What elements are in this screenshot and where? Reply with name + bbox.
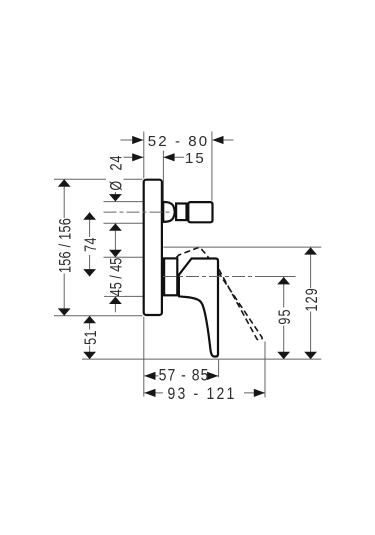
dimension line 15 — [116, 156, 143, 158]
arrow 93-121 left — [144, 389, 155, 397]
dimension line 51 — [89, 316, 91, 359]
extension line spout bottom (dia 24 bottom) — [104, 222, 143, 224]
spout centerline — [104, 211, 173, 213]
arrow 74 top — [83, 212, 96, 219]
svg-text:51: 51 — [81, 330, 100, 345]
spout collar ring — [176, 204, 186, 221]
arrow 45/45 bottom — [109, 297, 122, 304]
arrow 74 bottom — [83, 269, 96, 276]
arrow 15 left — [132, 153, 143, 161]
text halos — [58, 133, 319, 400]
svg-text:93 - 121: 93 - 121 — [167, 385, 236, 403]
extension line plate bottom — [54, 315, 143, 317]
arrow 156 bottom — [58, 308, 71, 315]
cartridge centerline — [163, 276, 268, 278]
extension line spout front (52-80) — [211, 132, 213, 201]
arrow 51 top — [83, 316, 96, 323]
extension line raised lever top (129) — [164, 246, 322, 248]
extension line wall top (52-80, 15) — [143, 132, 145, 179]
arrow 51 bottom — [83, 352, 96, 359]
dimension line 57-85 — [144, 375, 218, 377]
arrow 156 top — [58, 179, 71, 186]
svg-text:57 - 85: 57 - 85 — [159, 367, 210, 385]
dimension line 156/156 — [63, 179, 65, 315]
extension line lever tip (93-121) — [264, 342, 266, 398]
spout end block — [188, 202, 212, 222]
svg-text:156 / 156: 156 / 156 — [56, 218, 75, 273]
arrow 93-121 right — [254, 389, 265, 397]
arrow dia24 top — [109, 194, 122, 201]
svg-text:52 - 80: 52 - 80 — [148, 133, 209, 150]
dimension line dia24 / 45-45 — [114, 191, 116, 202]
svg-text:45 / 45: 45 / 45 — [107, 258, 126, 296]
arrow 52-80 left — [132, 136, 143, 144]
extension line wall bottom (57-85, 93-121) — [143, 317, 145, 397]
arrow dia24 bottom — [109, 223, 122, 230]
cartridge collar — [164, 258, 177, 295]
svg-text:129: 129 — [302, 287, 321, 311]
arrow 57-85 right — [207, 372, 218, 380]
arrow 129 bottom — [304, 352, 317, 359]
extension line plate top — [54, 178, 143, 180]
arrow 45/45 top — [109, 250, 122, 257]
lever handle body (solid) — [179, 259, 218, 357]
extension line handle bottom (51 / 95 / 129) — [82, 358, 321, 360]
arrowheads — [58, 136, 317, 397]
dimension line 93-121 — [144, 392, 265, 394]
arrow 129 top — [304, 247, 317, 254]
arrow 95 bottom — [277, 352, 290, 359]
dimension line 129 — [310, 247, 312, 359]
extension line plate front (15) — [162, 151, 164, 202]
svg-text:74: 74 — [81, 237, 100, 252]
dimension line 95 — [283, 277, 285, 359]
arrow 57-85 left — [144, 372, 155, 380]
svg-text:95: 95 — [275, 308, 294, 324]
extension line grip front (57-85) — [218, 360, 220, 378]
extension line collar top (45/45) — [104, 256, 143, 258]
lever handle raised position (dashed outline) — [176, 247, 262, 340]
arrow 52-80 right — [212, 136, 223, 144]
arrow 15 right — [163, 153, 174, 161]
extension line spout top (dia 24 top) — [104, 201, 143, 203]
arrow 95 top — [277, 277, 290, 284]
extension line collar bottom (45/45) — [104, 295, 143, 297]
wall plate (escutcheon) — [144, 180, 162, 315]
dimension line 74 — [89, 212, 91, 276]
svg-text:15: 15 — [185, 150, 206, 167]
spout dome connector — [163, 202, 175, 222]
svg-text:Ø 24: Ø 24 — [107, 154, 126, 190]
dimension line 52-80 — [121, 139, 144, 141]
